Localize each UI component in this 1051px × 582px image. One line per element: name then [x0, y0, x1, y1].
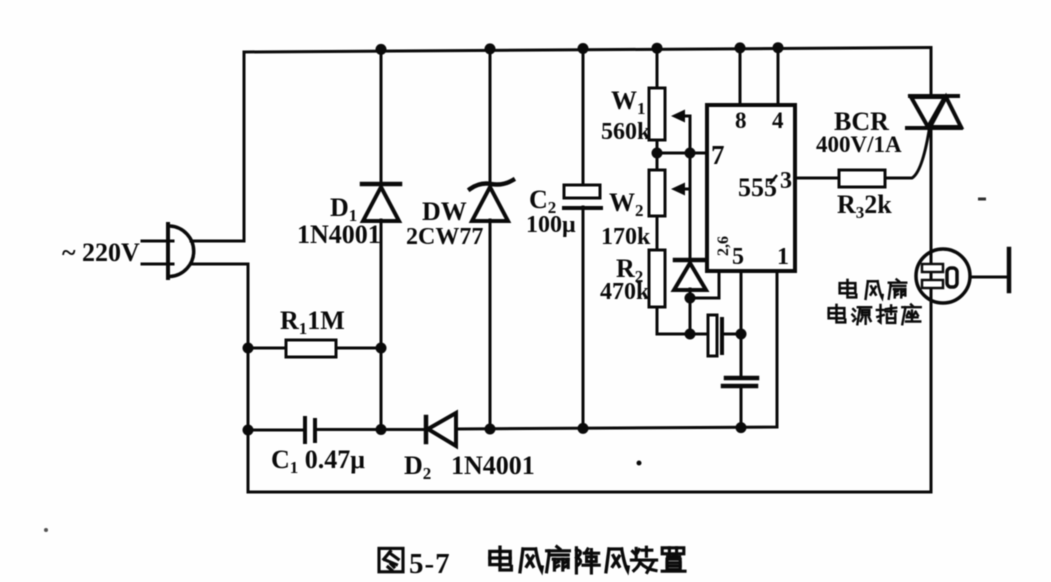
svg-text:W2: W2 — [609, 188, 644, 220]
svg-text:R11M: R11M — [280, 306, 345, 338]
svg-text:560k: 560k — [601, 119, 651, 145]
svg-text:3: 3 — [780, 168, 792, 194]
svg-text:2CW77: 2CW77 — [406, 224, 483, 250]
svg-text:C1 0.47μ: C1 0.47μ — [271, 445, 365, 477]
svg-text:8: 8 — [735, 108, 747, 133]
svg-text:100μ: 100μ — [526, 212, 576, 238]
svg-text:555: 555 — [738, 173, 777, 202]
svg-text:W1: W1 — [611, 86, 646, 118]
svg-text:DW: DW — [422, 197, 467, 226]
svg-text:470k: 470k — [600, 279, 650, 305]
svg-text:5-7: 5-7 — [409, 548, 451, 580]
svg-text:1N4001: 1N4001 — [451, 451, 535, 480]
svg-text:170k: 170k — [601, 224, 651, 250]
svg-text:~ 220V: ~ 220V — [62, 238, 140, 267]
svg-text:7: 7 — [711, 140, 725, 170]
svg-text:1: 1 — [777, 244, 789, 270]
svg-text:R32k: R32k — [837, 190, 892, 222]
svg-text:D2: D2 — [404, 451, 431, 483]
svg-text:5: 5 — [732, 244, 744, 270]
svg-text:1N4001: 1N4001 — [297, 220, 381, 249]
svg-text:2,6: 2,6 — [715, 236, 732, 256]
svg-text:400V/1A: 400V/1A — [816, 132, 902, 157]
svg-text:4: 4 — [772, 108, 784, 133]
